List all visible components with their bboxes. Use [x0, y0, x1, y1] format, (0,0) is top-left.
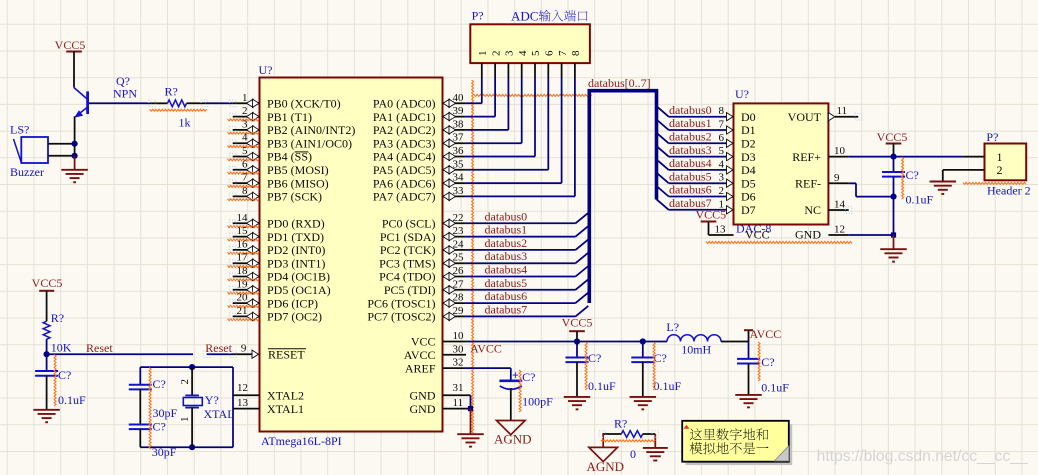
svg-text:D1: D1 [741, 123, 756, 137]
svg-text:databus3: databus3 [669, 143, 712, 157]
svg-text:+: + [512, 370, 519, 382]
svg-text:32: 32 [453, 357, 464, 369]
wire header2 pin1 [964, 156, 985, 158]
DAC pin 6 D2 wire from bus with net label databus2 [657, 130, 756, 151]
svg-text:ADC: ADC [511, 9, 538, 24]
resistor R1 1k [149, 85, 208, 130]
svg-text:4: 4 [242, 132, 248, 144]
svg-text:https://blog.csdn.net/cc__cc__: https://blog.csdn.net/cc__cc__ [817, 448, 1028, 465]
svg-text:3: 3 [242, 118, 248, 130]
svg-text:LS?: LS? [10, 123, 29, 137]
svg-text:2: 2 [490, 51, 502, 57]
header pin 3 and wire to PA2 [465, 50, 515, 130]
svg-text:PA1 (ADC1): PA1 (ADC1) [373, 110, 436, 124]
svg-text:PD5 (OC1A): PD5 (OC1A) [267, 283, 331, 297]
junction REF-/cap [890, 194, 896, 200]
wire PC3 to bus with net label databus3 [465, 249, 588, 263]
MCU pin 18 PD4 (OC1B) [228, 265, 331, 284]
svg-text:39: 39 [453, 105, 465, 117]
svg-text:31: 31 [453, 382, 464, 394]
svg-text:PB5 (MOSI): PB5 (MOSI) [267, 163, 329, 177]
header pin 7 and wire to PA6 [465, 50, 568, 183]
svg-text:29: 29 [453, 305, 465, 317]
svg-text:0.1uF: 0.1uF [906, 193, 934, 207]
svg-text:5: 5 [530, 50, 542, 56]
erc marker under R1 [150, 109, 207, 111]
MCU pin 3 PB2 (AIN0/INT2) [228, 118, 356, 137]
MCU pin 12 XTAL2 [233, 382, 304, 403]
wire AREF [465, 368, 510, 380]
svg-text:PC3 (TMS): PC3 (TMS) [379, 256, 435, 270]
capacitor C1 0.1uF (reset) [35, 354, 86, 409]
wire PC4 to bus with net label databus4 [465, 263, 588, 277]
DAC pin 5 D3 wire from bus with net label databus3 [657, 143, 756, 164]
wire crystal bottom rail [140, 446, 233, 448]
svg-text:databus6: databus6 [669, 183, 712, 197]
header pin 8 and wire to PA7 [465, 50, 582, 196]
svg-text:D5: D5 [741, 176, 756, 190]
svg-text:PD1 (TXD): PD1 (TXD) [267, 230, 324, 244]
svg-text:U?: U? [259, 63, 273, 77]
svg-text:1k: 1k [179, 116, 191, 130]
svg-text:0.1uF: 0.1uF [761, 381, 789, 395]
MCU pin 23 PC1 (SDA) [380, 225, 466, 244]
svg-text:PB6 (MISO): PB6 (MISO) [267, 176, 329, 190]
svg-text:databus1: databus1 [669, 116, 712, 130]
wire Reset net [47, 353, 193, 355]
wire Reset to MCU pin 9 [203, 351, 252, 358]
erc marker at C6 [653, 342, 655, 390]
svg-text:10K: 10K [51, 341, 72, 355]
svg-text:databus4: databus4 [669, 156, 712, 170]
MCU pin 25 PC3 (TMS) [379, 252, 465, 271]
inductor L1 10mH [666, 320, 721, 357]
ground (C7) [735, 395, 762, 407]
svg-text:P?: P? [986, 130, 998, 144]
svg-text:PB0 (XCK/T0): PB0 (XCK/T0) [267, 97, 341, 111]
svg-text:GND: GND [795, 228, 821, 242]
MCU pin 21 PD7 (OC2) [228, 305, 323, 324]
svg-text:databus0: databus0 [669, 103, 712, 117]
svg-text:PA6 (ADC6): PA6 (ADC6) [373, 176, 436, 190]
svg-text:PC4 (TDO): PC4 (TDO) [379, 270, 435, 284]
connector P1 ADC header [470, 9, 590, 64]
svg-text:R?: R? [614, 417, 627, 431]
svg-text:databus4: databus4 [485, 263, 528, 277]
MCU pin 7 PB6 (MISO) [228, 172, 329, 191]
transistor Q1 NPN [74, 74, 137, 118]
svg-text:ATmega16L-8PI: ATmega16L-8PI [261, 434, 342, 448]
net label AVCC (pin30) [470, 342, 502, 356]
svg-text:D3: D3 [741, 150, 756, 164]
svg-text:NC: NC [804, 203, 821, 217]
svg-text:VCC5: VCC5 [877, 130, 908, 144]
svg-text:0.1uF: 0.1uF [588, 379, 616, 393]
svg-text:databus2: databus2 [485, 236, 528, 250]
svg-text:12: 12 [237, 382, 248, 394]
svg-text:C?: C? [153, 377, 166, 391]
svg-text:NPN: NPN [113, 87, 137, 101]
svg-text:18: 18 [237, 265, 249, 277]
MCU pin 28 PC6 (TOSC1) [367, 292, 465, 311]
svg-text:10mH: 10mH [681, 343, 711, 357]
capacitor C8 100pF electrolytic [499, 370, 553, 421]
svg-text:C?: C? [906, 168, 919, 182]
MCU pin 17 PD3 (INT1) [228, 252, 326, 271]
svg-text:VCC5: VCC5 [562, 316, 593, 330]
svg-text:AVCC: AVCC [750, 327, 782, 341]
svg-text:VOUT: VOUT [788, 110, 822, 124]
svg-text:16: 16 [237, 238, 249, 250]
svg-text:databus6: databus6 [485, 289, 528, 303]
svg-text:C?: C? [153, 420, 166, 434]
svg-text:PA7 (ADC7): PA7 (ADC7) [373, 190, 436, 204]
svg-text:PC5 (TDI): PC5 (TDI) [384, 283, 436, 297]
MCU pin 9 RESET [241, 343, 306, 362]
svg-text:D0: D0 [741, 110, 756, 124]
svg-text:PD6 (ICP): PD6 (ICP) [267, 296, 318, 310]
DAC pin 13 VCC [709, 222, 770, 242]
svg-text:D4: D4 [741, 163, 756, 177]
MCU pin 27 PC5 (TDI) [384, 278, 466, 297]
svg-text:VCC5: VCC5 [32, 276, 63, 290]
op-amp U2 DAC-8 body [734, 87, 829, 236]
svg-text:24: 24 [453, 238, 465, 250]
svg-text:2: 2 [242, 105, 248, 117]
ground (reset cap) [33, 410, 60, 422]
header pin 2 and wire to PA1 [465, 51, 502, 117]
wire R1 to pin PB0 [206, 102, 233, 104]
svg-text:35: 35 [453, 158, 465, 170]
junction at buzzer2/ground [72, 153, 78, 159]
svg-text:RESET: RESET [268, 347, 305, 361]
analog ground AGND (AREF) [494, 421, 532, 447]
DAC pin 10 REF+ [792, 145, 848, 164]
svg-text:20: 20 [237, 292, 249, 304]
MCU pin 35 PA5 (ADC5) [373, 158, 465, 177]
capacitor C3 30pF [129, 420, 177, 460]
wire PC6 to bus with net label databus6 [465, 289, 588, 303]
svg-text:VCC5: VCC5 [55, 38, 86, 52]
wire VCC rail [465, 341, 748, 343]
DAC pin 14 NC [804, 199, 852, 218]
MCU pin 30 AVCC [404, 343, 466, 362]
svg-text:6: 6 [242, 158, 248, 170]
wire header2 pin2 [943, 170, 985, 182]
svg-text:2: 2 [719, 185, 725, 197]
svg-text:D7: D7 [741, 203, 756, 217]
MCU pin 6 PB5 (MOSI) [228, 158, 329, 177]
svg-text:0: 0 [630, 447, 636, 461]
svg-text:Reset: Reset [86, 341, 113, 355]
MCU pin 13 XTAL1 [233, 397, 304, 416]
svg-text:R?: R? [51, 311, 64, 325]
erc marker under DAC [706, 241, 852, 243]
svg-text:GND: GND [410, 389, 436, 403]
net label Reset (at MCU) [205, 341, 232, 355]
MCU pin 2 PB1 (T1) [228, 105, 313, 124]
erc marker at reset cap [54, 355, 56, 407]
header pin 4 and wire to PA3 [465, 50, 529, 143]
svg-text:3: 3 [719, 172, 725, 184]
svg-text:PC1 (SDA): PC1 (SDA) [380, 230, 436, 244]
svg-text:XTAL2: XTAL2 [267, 389, 304, 403]
capacitor C4 0.1uF (REF) [882, 157, 934, 207]
svg-text:4: 4 [517, 50, 529, 56]
svg-text:Header 2: Header 2 [987, 184, 1031, 198]
MCU pin 8 PB7 (SCK) [228, 185, 323, 204]
svg-text:VCC5: VCC5 [696, 208, 727, 222]
junction crystal top [189, 364, 195, 370]
wire crystal top rail [140, 367, 233, 447]
wire buzzer pin1 [48, 143, 75, 145]
watermark [817, 448, 1028, 465]
net label Reset (left) [86, 341, 113, 355]
MCU pin 10 VCC [411, 330, 466, 349]
wire PC0 to bus with net label databus0 [465, 209, 588, 223]
ground (C5) [564, 397, 591, 409]
svg-text:PA3 (ADC3): PA3 (ADC3) [373, 136, 436, 150]
buzzer LS1 [10, 123, 48, 180]
svg-text:100pF: 100pF [522, 395, 553, 409]
erc marker under header2 [963, 182, 1026, 184]
svg-text:1: 1 [179, 417, 191, 423]
svg-text:1: 1 [242, 92, 248, 104]
svg-text:AGND: AGND [494, 432, 532, 447]
bus databus[0..7] [588, 76, 657, 303]
svg-text:2: 2 [997, 163, 1003, 177]
svg-text:databus0: databus0 [485, 209, 528, 223]
svg-text:PD2 (INT0): PD2 (INT0) [267, 243, 325, 257]
erc marker at C5 [585, 342, 587, 390]
note box with chinese text [682, 421, 792, 465]
wire GND pins [468, 395, 473, 434]
svg-text:databus2: databus2 [669, 130, 712, 144]
svg-text:30: 30 [453, 343, 465, 355]
MCU pin 19 PD5 (OC1A) [228, 278, 331, 297]
svg-text:34: 34 [453, 172, 465, 184]
MCU pin 16 PD2 (INT0) [228, 238, 326, 257]
svg-text:8: 8 [719, 105, 725, 117]
svg-text:12: 12 [834, 224, 845, 236]
svg-text:28: 28 [453, 292, 465, 304]
MCU pin 40 PA0 (ADC0) [373, 92, 465, 111]
svg-text:6: 6 [544, 50, 556, 56]
svg-text:37: 37 [453, 132, 465, 144]
ground (C6) [630, 397, 657, 409]
svg-text:REF+: REF+ [792, 150, 821, 164]
DAC pin 12 GND [795, 224, 894, 242]
svg-text:databus1: databus1 [485, 223, 528, 237]
svg-text:XTAL1: XTAL1 [267, 402, 304, 416]
junction VCC5/rail [574, 338, 580, 344]
svg-text:C?: C? [588, 351, 601, 365]
MCU pin 36 PA4 (ADC4) [373, 145, 465, 164]
junction GND12 [891, 232, 896, 237]
svg-text:PB1 (T1): PB1 (T1) [267, 110, 312, 124]
capacitor C5 0.1uF [566, 342, 617, 397]
connector P2 Header 2 [985, 130, 1031, 198]
MCU pin 29 PC7 (TOSC2) [367, 305, 465, 324]
svg-text:13: 13 [237, 397, 249, 409]
MCU pin 11 GND [410, 397, 471, 416]
ground (MCU GND) [457, 434, 484, 446]
svg-text:4: 4 [719, 158, 725, 170]
ground (header2) [930, 182, 957, 194]
svg-text:1: 1 [997, 150, 1003, 164]
erc marker at C7 [758, 342, 760, 381]
svg-text:AREF: AREF [405, 361, 436, 375]
svg-text:25: 25 [453, 252, 465, 264]
svg-text:databus5: databus5 [669, 169, 712, 183]
svg-text:14: 14 [237, 212, 249, 224]
MCU pin 24 PC2 (TCK) [380, 238, 466, 257]
svg-text:40: 40 [453, 92, 465, 104]
MCU pin 1 PB0 (XCK/T0) [229, 92, 340, 111]
svg-text:C?: C? [522, 370, 535, 384]
erc marker at C8 [519, 370, 521, 412]
svg-text:Y?: Y? [205, 393, 219, 407]
svg-text:7: 7 [719, 119, 725, 131]
MCU pin 34 PA6 (ADC6) [373, 172, 465, 191]
power VCC5 (VCC rail) [562, 316, 593, 342]
svg-text:AGND: AGND [587, 459, 625, 474]
MCU pin 14 PD0 (RXD) [228, 212, 325, 231]
svg-text:0.1uF: 0.1uF [58, 393, 86, 407]
svg-text:14: 14 [834, 199, 846, 211]
DAC pin 4 D4 wire from bus with net label databus4 [657, 156, 756, 177]
svg-text:GND: GND [410, 402, 436, 416]
svg-text:17: 17 [237, 252, 249, 264]
DAC pin 9 REF- [795, 172, 856, 191]
wire crystal to XTAL2 [232, 394, 234, 396]
svg-text:2: 2 [179, 379, 191, 385]
svg-text:PC0 (SCL): PC0 (SCL) [382, 217, 436, 231]
wire transistor emitter down [74, 116, 76, 156]
svg-text:8: 8 [570, 50, 582, 56]
wire REF- route [856, 183, 894, 196]
DAC pin 1 D7 wire from bus with net label databus7 [657, 196, 756, 217]
MCU pin 15 PD1 (TXD) [228, 225, 325, 244]
svg-text:30pF: 30pF [152, 445, 177, 459]
svg-text:PB3 (AIN1/OC0): PB3 (AIN1/OC0) [267, 136, 352, 150]
MCU pin 20 PD6 (ICP) [228, 292, 319, 311]
power AVCC [744, 327, 781, 342]
MCU pin 22 PC0 (SCL) [382, 212, 466, 231]
svg-text:databus3: databus3 [485, 249, 528, 263]
svg-text:7: 7 [557, 50, 569, 56]
svg-text:VCC: VCC [411, 335, 436, 349]
MCU pin 39 PA1 (ADC1) [373, 105, 465, 124]
svg-text:36: 36 [453, 145, 465, 157]
wire REF+ rail [849, 156, 964, 158]
ground (DAC/REF) [880, 235, 907, 262]
header pin 5 and wire to PA4 [465, 50, 542, 157]
erc marker at crystal caps [149, 368, 151, 450]
svg-text:7: 7 [242, 172, 248, 184]
svg-text:VCC: VCC [745, 228, 770, 242]
svg-text:R?: R? [165, 85, 178, 99]
svg-text:11: 11 [837, 105, 848, 117]
op-amp U1 ATmega16 body [259, 63, 443, 448]
svg-text:10: 10 [834, 145, 846, 157]
MCU pin 32 AREF [405, 357, 466, 376]
svg-text:PB2 (AIN0/INT2): PB2 (AIN0/INT2) [267, 123, 355, 137]
svg-text:PA5 (ADC5): PA5 (ADC5) [373, 163, 436, 177]
junction C6/rail [640, 338, 646, 344]
capacitor C2 30pF [129, 367, 178, 424]
wire PC5 to bus with net label databus5 [465, 276, 588, 290]
power VCC5 (DAC) [696, 208, 727, 222]
svg-text:C?: C? [761, 355, 774, 369]
DAC pin 11 VOUT [788, 105, 862, 124]
header pin 6 and wire to PA5 [465, 50, 555, 170]
DAC pin 2 D6 wire from bus with net label databus6 [657, 183, 756, 204]
crystal Y1 XTAL [179, 367, 235, 447]
ground (emitter) [61, 156, 88, 182]
svg-text:PD0 (RXD): PD0 (RXD) [267, 217, 325, 231]
capacitor C6 0.1uF [631, 342, 681, 397]
svg-text:21: 21 [237, 305, 248, 317]
MCU pin 5 PB4 (SS) [228, 145, 313, 164]
svg-text:databus7: databus7 [485, 302, 528, 316]
svg-text:PD7 (OC2): PD7 (OC2) [267, 310, 322, 324]
svg-text:38: 38 [453, 118, 465, 130]
svg-text:PA2 (ADC2): PA2 (ADC2) [373, 123, 436, 137]
wire transistor base to R1 [89, 102, 152, 104]
junction crystal bottom [189, 444, 195, 450]
svg-text:Buzzer: Buzzer [10, 165, 44, 179]
MCU pin 37 PA3 (ADC3) [373, 132, 465, 151]
svg-text:22: 22 [453, 212, 464, 224]
MCU pin 38 PA2 (ADC2) [373, 118, 465, 137]
svg-text:PB7 (SCK): PB7 (SCK) [267, 190, 322, 204]
MCU pin 26 PC4 (TDO) [379, 265, 465, 284]
svg-text:13: 13 [715, 224, 727, 236]
svg-text:D6: D6 [741, 190, 756, 204]
MCU pin 4 PB3 (AIN1/OC0) [228, 132, 353, 151]
wire PC7 to bus with net label databus7 [465, 302, 588, 316]
svg-text:11: 11 [453, 397, 464, 409]
svg-text:9: 9 [241, 343, 247, 355]
header pin 1 and wire to PA0 [465, 51, 489, 104]
svg-text:19: 19 [237, 278, 249, 290]
svg-text:C?: C? [58, 368, 71, 382]
svg-text:Reset: Reset [205, 341, 232, 355]
svg-text:REF-: REF- [795, 177, 821, 191]
erc vertical marker at MCU right pin column [472, 80, 474, 433]
svg-text:PC6 (TOSC1): PC6 (TOSC1) [367, 296, 435, 310]
capacitor C7 0.1uF (AVCC) [737, 342, 789, 395]
svg-text:U?: U? [735, 87, 749, 101]
svg-text:PD3 (INT1): PD3 (INT1) [267, 256, 325, 270]
erc horizontal marker under bus top [474, 94, 592, 96]
power VCC5 (REF+) [877, 130, 908, 157]
svg-text:10: 10 [453, 330, 465, 342]
svg-text:9: 9 [834, 172, 840, 184]
analog ground AGND (R3) [587, 447, 625, 474]
svg-text:33: 33 [453, 185, 465, 197]
DAC pin 3 D5 wire from bus with net label databus5 [657, 169, 756, 190]
power VCC5 (transistor collector) [55, 38, 86, 88]
ground (R3) [643, 448, 668, 461]
resistor R2 10K [43, 311, 71, 355]
svg-text:27: 27 [453, 278, 465, 290]
svg-text:5: 5 [719, 145, 725, 157]
svg-text:15: 15 [237, 225, 249, 237]
svg-text:AVCC: AVCC [470, 342, 502, 356]
svg-text:databus5: databus5 [485, 276, 528, 290]
